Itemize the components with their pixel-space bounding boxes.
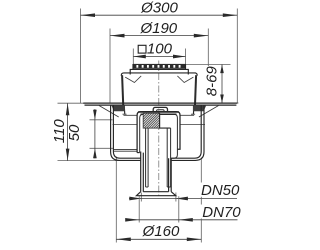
dimension 8-69 reference lines <box>186 64 239 103</box>
svg-text:100: 100 <box>147 40 173 57</box>
svg-text:DN70: DN70 <box>202 204 241 221</box>
dimension DN70 extension lines <box>139 196 179 222</box>
dimension dia190 <box>110 20 208 38</box>
seat line left <box>123 114 138 115</box>
svg-text:8-69: 8-69 <box>204 66 221 97</box>
svg-text:Ø190: Ø190 <box>139 20 177 37</box>
trap handle <box>153 107 167 111</box>
upper section top rim <box>121 73 197 76</box>
body wall inner left <box>113 105 140 158</box>
trap bell <box>137 112 180 159</box>
flange plate <box>83 103 237 105</box>
dimension 110 <box>51 103 70 160</box>
clamping claw right <box>177 76 193 83</box>
clamping claw left <box>125 76 141 83</box>
dimension square100 <box>133 40 185 58</box>
svg-text:50: 50 <box>66 124 83 141</box>
upper ledge left <box>113 124 138 126</box>
upper section wall right <box>193 75 196 114</box>
dimension DN50 extension lines <box>141 193 176 202</box>
dimension DN50 <box>129 182 240 201</box>
dimension 8-69 <box>204 65 224 103</box>
upper ledge right <box>180 124 205 126</box>
dimension 50 reference lines <box>90 120 114 149</box>
weir step <box>160 113 171 128</box>
body wall right <box>171 105 204 160</box>
standpipe <box>146 128 171 187</box>
dimension dia160 <box>116 223 201 241</box>
dimension dia160 extension lines <box>116 157 201 243</box>
dimension dia300 <box>81 0 238 17</box>
svg-text:Ø160: Ø160 <box>142 223 180 240</box>
seat line right <box>180 114 195 115</box>
upper section wall left <box>122 75 125 114</box>
dimension DN70 <box>125 204 241 221</box>
trap bell top edge <box>138 112 179 114</box>
body wall left <box>111 105 141 160</box>
svg-text:Ø300: Ø300 <box>140 0 178 16</box>
dimension 50 <box>66 109 97 159</box>
dimension square100 extension lines <box>133 49 185 65</box>
bowl ledge <box>113 150 136 152</box>
dimension 110 reference lines <box>58 103 120 160</box>
grate frame <box>130 64 188 75</box>
flange gusset left <box>99 105 125 117</box>
svg-text:DN50: DN50 <box>201 182 240 199</box>
grate <box>133 64 186 69</box>
dimension dia300 extension lines <box>81 9 238 104</box>
outlet pipe <box>136 152 175 196</box>
body wall inner right <box>171 105 201 158</box>
hatched insert <box>143 113 159 128</box>
centre line <box>158 61 160 200</box>
dimension dia190 extension lines <box>110 29 208 104</box>
flange gusset right <box>193 105 219 117</box>
